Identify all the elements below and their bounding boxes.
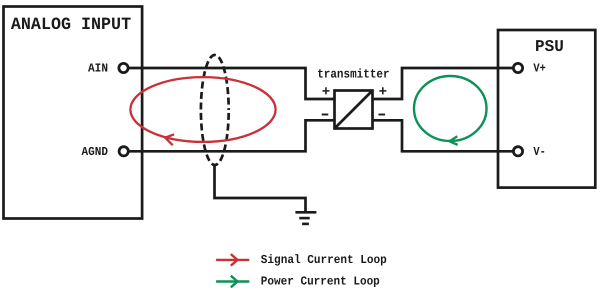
signal current loop red ellipse [130, 77, 275, 142]
legend red arrow [216, 254, 249, 266]
wire AGND to transmitter - [129, 120, 335, 151]
wire transmitter + to V+ [373, 68, 514, 99]
svg-text:V+: V+ [533, 61, 545, 75]
wire AIN to transmitter + [129, 68, 335, 99]
cable shield dashed ellipse [201, 55, 229, 165]
svg-text:ANALOG INPUT: ANALOG INPUT [11, 16, 131, 35]
svg-text:V-: V- [533, 145, 545, 159]
analog input box U1 [4, 7, 143, 219]
terminal V- [513, 147, 522, 156]
PSU box [498, 30, 595, 188]
signal loop arrowhead [165, 134, 174, 145]
wire transmitter - to V- [373, 120, 514, 151]
terminal V+ [513, 63, 522, 72]
legend green arrow [216, 276, 249, 288]
svg-text:AGND: AGND [82, 145, 109, 159]
terminal AGND [119, 147, 128, 156]
pin label - left [322, 114, 329, 116]
transmitter diagonal [335, 91, 373, 129]
svg-text:Signal Current Loop: Signal Current Loop [261, 253, 387, 267]
svg-text:AIN: AIN [88, 62, 108, 76]
svg-text:Power Current Loop: Power Current Loop [261, 275, 380, 289]
terminal AIN [119, 63, 128, 72]
svg-text:+: + [322, 84, 330, 100]
power current loop green ellipse [414, 76, 487, 141]
svg-text:transmitter: transmitter [317, 68, 389, 82]
wire shield to ground [215, 164, 306, 213]
transmitter box [335, 91, 373, 129]
power loop arrowhead [450, 136, 458, 145]
svg-text:PSU: PSU [535, 37, 564, 56]
ground symbol [295, 212, 316, 224]
pin label - right [379, 114, 386, 116]
